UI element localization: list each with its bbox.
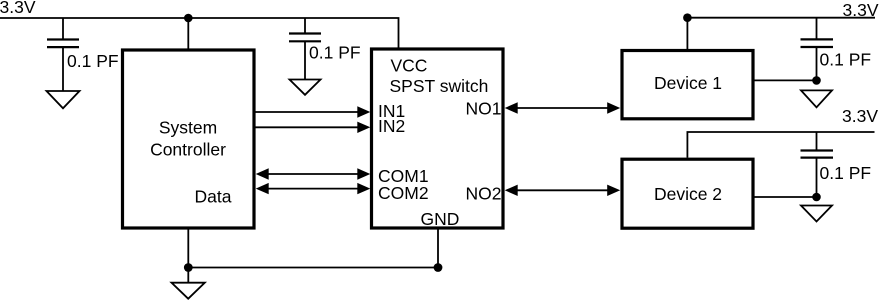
svg-text:System: System [159, 118, 217, 138]
svg-text:3.3V: 3.3V [0, 0, 36, 17]
svg-text:NO1: NO1 [466, 98, 502, 118]
wire NO1 to Device 1 bidirectional arrow [505, 102, 621, 113]
Device 1 block [622, 51, 753, 119]
wire Device 2 right pin to C4 [755, 196, 817, 198]
wire 3.3V rail right top [687, 17, 875, 19]
svg-text:NO2: NO2 [466, 184, 502, 204]
svg-text:VCC: VCC [391, 56, 428, 76]
node junction rail to Device 1 supply [683, 13, 692, 22]
wire 3.3V rail right bottom into Device 2 [687, 132, 874, 158]
svg-text:0.1 PF: 0.1 PF [820, 50, 872, 70]
wire stub to ground symbol [187, 268, 189, 283]
svg-text:IN2: IN2 [378, 116, 405, 136]
ground symbol under C4 [801, 206, 832, 222]
wire IN2 with arrow into switch [255, 122, 370, 133]
wire System Controller ground lead [187, 228, 189, 268]
wire 3.3V top rail left into VCC pin [0, 18, 399, 48]
capacitor C1 0.1 PF (left bypass) [47, 18, 119, 91]
System Controller block [123, 50, 255, 228]
ground symbol bottom [172, 283, 205, 299]
svg-text:0.1 PF: 0.1 PF [67, 51, 119, 71]
node junction ground bus left [184, 263, 193, 272]
svg-text:Device 1: Device 1 [654, 73, 722, 93]
ground symbol under C2 [290, 80, 321, 95]
wire Device 1 right pin to C3 [755, 79, 817, 81]
node junction at C4 [812, 193, 821, 202]
node junction at C3 [812, 76, 821, 85]
wire COM2 bidirectional arrow [256, 183, 371, 194]
svg-text:Controller: Controller [150, 140, 226, 160]
wire junction to System Controller top [187, 18, 189, 50]
ground symbol under C3 [801, 90, 832, 107]
svg-text:0.1 PF: 0.1 PF [309, 43, 361, 63]
svg-text:SPST switch: SPST switch [390, 76, 489, 96]
wire ground bus bottom [188, 267, 438, 269]
node junction ground bus right [434, 263, 443, 272]
wire NO2 to Device 2 bidirectional arrow [505, 185, 621, 196]
svg-text:GND: GND [421, 209, 460, 229]
capacitor C4 0.1 PF (Device 2 bypass) [801, 132, 872, 197]
Device 2 block [622, 159, 753, 228]
svg-text:0.1 PF: 0.1 PF [820, 163, 872, 183]
capacitor C3 0.1 PF (Device 1 bypass) [801, 18, 872, 81]
wire junction to Device 1 top [686, 18, 688, 50]
SPST switch block [372, 49, 504, 229]
capacitor C2 0.1 PF (middle bypass) [289, 18, 361, 80]
svg-text:3.3V: 3.3V [842, 106, 878, 126]
ground symbol under C1 [47, 91, 80, 108]
node junction top rail / System Controller supply [184, 14, 193, 23]
svg-text:Data: Data [195, 187, 232, 207]
svg-text:COM2: COM2 [378, 183, 429, 203]
wire IN1 with arrow into switch [255, 106, 370, 117]
wire SPST GND pin lead [437, 228, 439, 268]
wire COM1 bidirectional arrow [256, 168, 371, 179]
svg-text:Device 2: Device 2 [654, 184, 722, 204]
